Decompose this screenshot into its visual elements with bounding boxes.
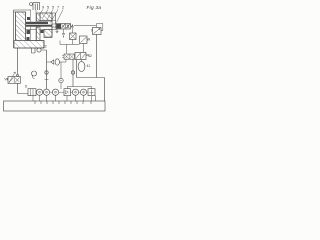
wire through V3 <box>18 48 29 94</box>
svg-text:41: 41 <box>87 64 91 68</box>
block port square A <box>27 30 31 34</box>
valve V1 spring <box>71 25 74 28</box>
directional valve V1 <box>56 24 71 30</box>
leader line 4 <box>51 10 59 23</box>
RV1 spring left <box>91 29 92 31</box>
block bottom hatched band <box>14 41 44 49</box>
node circle left <box>45 71 48 74</box>
wire restrictor down <box>72 60 74 87</box>
svg-text:5: 5 <box>52 6 54 10</box>
pump circle 2 <box>43 89 49 95</box>
check valve ball-seat <box>51 60 54 64</box>
wire check to restrictor <box>60 59 67 62</box>
relief valve RV1 <box>93 28 102 35</box>
block right flange <box>52 24 56 30</box>
block port square D <box>27 17 30 20</box>
svg-text:Fig 3a: Fig 3a <box>87 5 102 11</box>
end square <box>88 89 95 96</box>
restrictor valve XX <box>64 54 75 59</box>
mid chain symbol <box>59 78 63 82</box>
svg-text:2: 2 <box>62 6 64 10</box>
wire right frame pipe <box>104 78 106 102</box>
block inner hatch mid column <box>37 27 41 41</box>
gauge balloon <box>32 71 37 76</box>
wire to check valve <box>47 61 51 63</box>
svg-text:42: 42 <box>88 54 92 58</box>
RV1 pilot loop <box>97 24 103 31</box>
outlet stub under block <box>32 48 36 53</box>
wire restrictor up <box>66 45 68 54</box>
motor box <box>28 89 36 96</box>
wire orifice down <box>72 40 74 45</box>
wire orifice up <box>72 26 74 34</box>
svg-text:5: 5 <box>47 6 49 10</box>
wire from stem circle down <box>46 50 48 89</box>
valve stem tube <box>33 3 40 11</box>
leader line 5 <box>57 10 64 23</box>
block right top edge <box>40 13 56 24</box>
wire RV1 drain <box>96 35 98 78</box>
block top rail lines <box>40 19 56 21</box>
block stem side hatch <box>37 13 41 21</box>
block right hatched upper part <box>40 13 52 21</box>
block dark spool band lower <box>26 25 52 27</box>
wire V1 to relief valve <box>74 25 97 27</box>
svg-text:22: 22 <box>43 45 47 49</box>
pump circle 3 <box>52 89 58 95</box>
tank pipe ticks <box>35 101 91 104</box>
block left hatched column <box>16 12 26 41</box>
valve V1 tank stub left <box>56 29 59 33</box>
stem cap <box>30 3 33 6</box>
reservoir tank <box>4 101 106 111</box>
pump circle 1 <box>36 89 42 95</box>
wire drain manifold <box>60 41 84 53</box>
valve V4 above accumulator <box>75 53 86 60</box>
pump circle 5 <box>80 89 86 95</box>
accumulator <box>78 62 85 72</box>
orifice X box <box>70 33 77 40</box>
left valve V3 <box>8 77 21 84</box>
wire row drops to tank <box>33 95 96 101</box>
leader line 2 <box>43 10 49 19</box>
valve V2 spring <box>87 38 90 41</box>
outlet check circle <box>37 48 41 52</box>
node on V3 inlet <box>17 74 19 76</box>
block port square C <box>41 30 44 33</box>
cylinder block outline <box>14 10 32 48</box>
block port square B <box>27 37 30 41</box>
wire block to valve V1 <box>52 26 56 28</box>
leader line 1 <box>39 10 44 16</box>
valve V3 spring <box>5 78 9 81</box>
wire accumulator branch <box>77 60 105 78</box>
block bore channel walls <box>31 10 37 41</box>
wire row shaft links <box>36 91 88 93</box>
valve V1 tank stub right <box>62 29 64 36</box>
leader line 3 <box>47 10 54 21</box>
wire top bracket over pumps <box>67 87 91 89</box>
block hatch column edge <box>14 12 26 41</box>
pump circle 4 <box>72 89 78 95</box>
wire mid chain down <box>60 62 62 89</box>
block dark spool band upper <box>26 22 48 24</box>
svg-text:7: 7 <box>57 6 59 10</box>
pressure valve V2 <box>80 36 88 44</box>
block right hatched lower part <box>44 30 52 38</box>
tick on left chain <box>45 79 49 81</box>
svg-text:9: 9 <box>42 6 44 10</box>
pump unit square <box>64 89 71 96</box>
node circle right <box>71 71 74 74</box>
block bore lines <box>26 29 52 31</box>
